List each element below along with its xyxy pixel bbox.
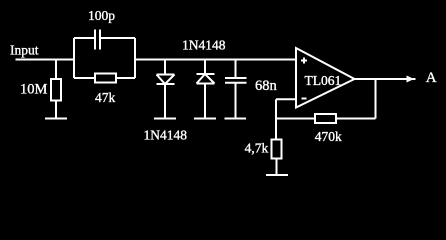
wire RC box bottom edge left — [74, 77, 95, 79]
diode D1 1N4148 — [157, 60, 175, 119]
wire feedback left vertical — [275, 99, 277, 139]
svg-text:470k: 470k — [315, 129, 342, 144]
wire RC box top edge left — [74, 37, 95, 39]
wire inverting input — [276, 98, 296, 100]
ground under D2 — [194, 118, 216, 120]
wire output — [355, 78, 416, 80]
svg-text:68n: 68n — [255, 78, 278, 94]
wire 4,7k to ground — [276, 159, 278, 176]
ground under D1 — [154, 118, 176, 120]
svg-text:1N4148: 1N4148 — [182, 38, 226, 53]
wire RC box left edge — [73, 38, 75, 78]
resistor 47k — [95, 74, 116, 106]
ground under 68n — [225, 118, 247, 120]
svg-text:TL061: TL061 — [305, 73, 342, 88]
node Input label — [10, 43, 39, 58]
svg-text:100p: 100p — [88, 8, 115, 23]
svg-text:47k: 47k — [95, 90, 116, 105]
diode D2 1N4148 — [197, 60, 215, 119]
label 1N4148 upper — [182, 38, 226, 53]
resistor 4,7k — [245, 140, 282, 159]
capacitor 68n — [225, 60, 278, 119]
wire feedback horizontal right — [336, 118, 376, 120]
wire RC box bottom edge right — [116, 77, 135, 79]
ground under 10M — [45, 118, 67, 120]
wire input horizontal — [16, 59, 75, 61]
output arrowhead — [407, 76, 415, 83]
wire feedback right vertical — [375, 79, 377, 119]
svg-text:A: A — [426, 70, 437, 86]
wire main horizontal to op-amp — [135, 59, 296, 61]
capacitor 100p — [88, 8, 115, 50]
wire 10M junction vertical — [55, 60, 57, 80]
resistor 10M — [20, 79, 61, 101]
ground under 4,7k — [266, 174, 288, 176]
svg-text:1N4148: 1N4148 — [144, 128, 188, 143]
op-amp TL061 — [296, 48, 355, 108]
wire RC box right edge — [134, 38, 136, 78]
label 1N4148 lower — [144, 128, 188, 143]
node A label — [426, 70, 437, 86]
wire 10M to ground — [55, 101, 57, 119]
svg-text:10M: 10M — [20, 82, 48, 98]
svg-text:4,7k: 4,7k — [245, 141, 269, 156]
svg-text:Input: Input — [10, 43, 39, 58]
resistor 470k — [315, 114, 342, 144]
wire feedback horizontal left — [276, 118, 315, 120]
wire RC box top edge right — [100, 37, 135, 39]
